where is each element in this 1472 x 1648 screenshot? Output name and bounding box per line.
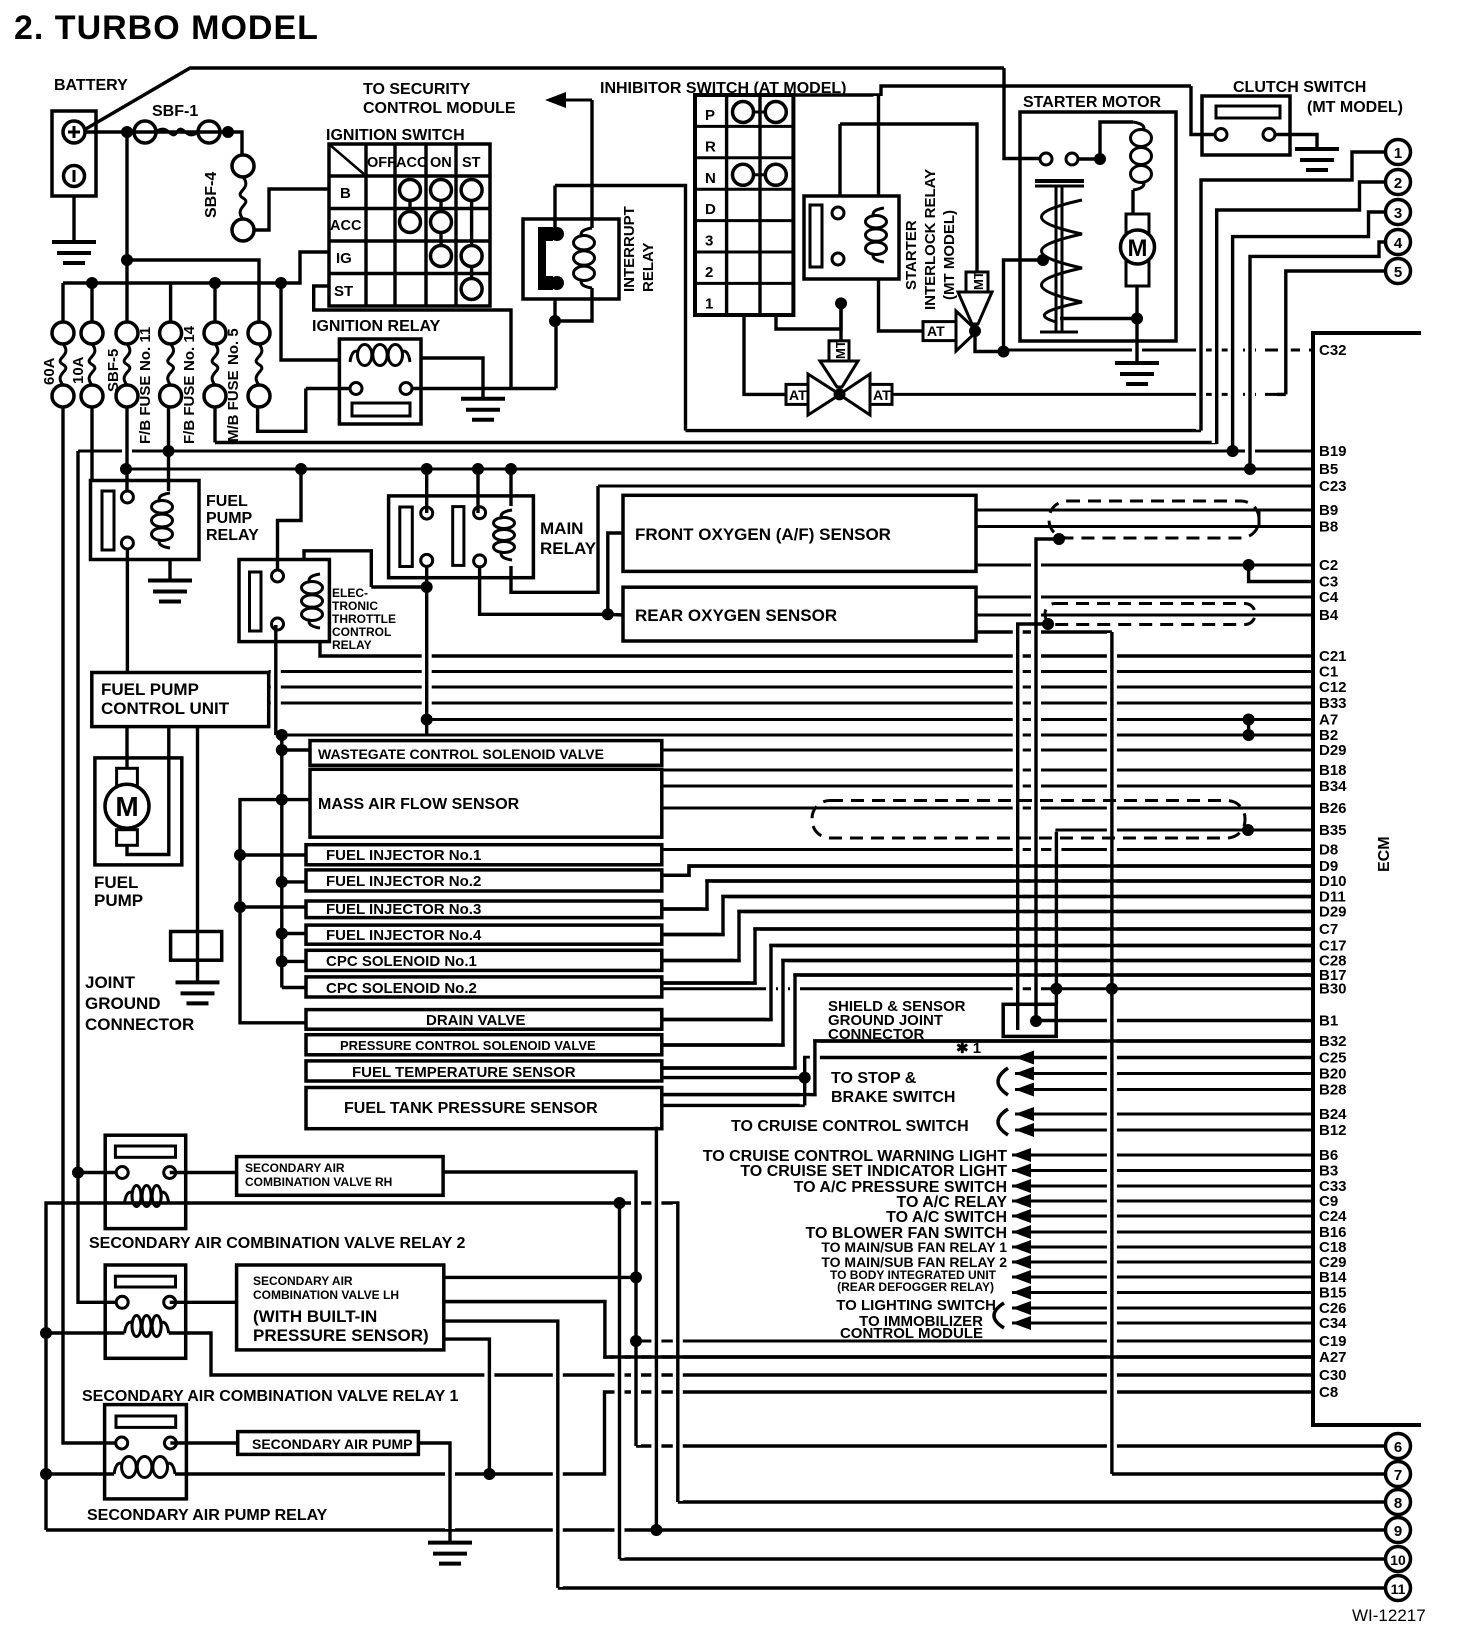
svg-text:IG: IG	[336, 250, 352, 267]
svg-text:3: 3	[1394, 205, 1402, 222]
svg-text:C30: C30	[1319, 1367, 1347, 1384]
svg-text:P: P	[705, 107, 715, 124]
wire ST row to interrupt relay and ground	[314, 286, 511, 389]
secondary air pump	[238, 1432, 419, 1455]
wire B15 line to lighting switch	[1012, 1291, 1313, 1294]
wire redraw riser D29 second	[662, 912, 1313, 961]
svg-text:MAIN: MAIN	[540, 519, 583, 538]
wire battery positive bus	[85, 132, 242, 155]
svg-text:PRESSURE SENSOR): PRESSURE SENSOR)	[253, 1326, 429, 1345]
svg-text:FUEL INJECTOR No.1: FUEL INJECTOR No.1	[326, 847, 481, 864]
wire bus A CPC2 tap	[282, 986, 306, 989]
svg-text:TO SECURITY: TO SECURITY	[363, 81, 471, 98]
svg-text:CONNECTOR: CONNECTOR	[85, 1015, 194, 1034]
wire redraw riser C28	[662, 961, 1313, 1046]
wire B19 feed down to secondary air relays	[78, 451, 117, 1302]
svg-text:B8: B8	[1319, 519, 1338, 536]
svg-text:M: M	[1128, 235, 1148, 262]
svg-text:INTERRUPT: INTERRUPT	[621, 206, 638, 292]
svg-text:ELEC-: ELEC-	[332, 586, 368, 600]
svg-text:2. TURBO MODEL: 2. TURBO MODEL	[14, 9, 319, 47]
wire main relay contact feeds	[425, 469, 428, 513]
svg-text:D29: D29	[1319, 742, 1347, 759]
svg-text:B33: B33	[1319, 695, 1347, 712]
svg-text:CPC SOLENOID No.1: CPC SOLENOID No.1	[326, 953, 477, 970]
svg-text:No. 11: No. 11	[137, 327, 154, 371]
wire C25 line	[805, 1058, 1313, 1106]
wire power bus B	[240, 800, 306, 1023]
fuse SBF-4	[232, 155, 254, 177]
wire C2 line from front oxygen sensor	[976, 564, 1313, 567]
wire power bus A	[280, 735, 283, 988]
junction dots C25 net	[799, 1072, 811, 1084]
wire M/B fuse No.5 output to ignition relay contact	[258, 389, 306, 432]
svg-text:C24: C24	[1319, 1208, 1347, 1225]
svg-text:TO CRUISE CONTROL SWITCH: TO CRUISE CONTROL SWITCH	[731, 1118, 969, 1135]
wire bus A injector2 tap	[282, 880, 306, 883]
svg-text:10A: 10A	[70, 356, 87, 384]
svg-text:B32: B32	[1319, 1033, 1347, 1050]
fuse SBF-1	[134, 121, 156, 143]
wire battery sub-bus to M/B fuse	[127, 260, 259, 322]
fuel pump control unit	[92, 673, 269, 727]
svg-text:IGNITION SWITCH: IGNITION SWITCH	[326, 127, 465, 144]
svg-text:M: M	[115, 791, 138, 822]
junction dots on fuse bus	[86, 277, 98, 289]
wire relay1 to valve LH	[170, 1301, 237, 1304]
wire ignition switch B row feed	[253, 189, 329, 230]
wire C17 line from drain valve	[662, 946, 1313, 1020]
arrow C25	[1015, 1051, 1034, 1065]
fuel injector No.4	[306, 925, 662, 944]
svg-text:ACC: ACC	[330, 218, 362, 234]
ground ignition relay coil	[461, 397, 505, 401]
svg-text:C21: C21	[1319, 648, 1347, 665]
wire interrupt relay bottom to ST net	[554, 321, 557, 389]
svg-text:B15: B15	[1319, 1285, 1347, 1302]
svg-text:CONTROL: CONTROL	[332, 625, 391, 639]
junction dots right side	[1227, 445, 1239, 457]
svg-text:WASTEGATE CONTROL SOLENOID VAL: WASTEGATE CONTROL SOLENOID VALVE	[318, 746, 604, 762]
wire clutch switch feed line	[793, 86, 1191, 95]
svg-text:STARTER: STARTER	[903, 220, 920, 290]
svg-text:C23: C23	[1319, 478, 1347, 495]
svg-text:RELAY: RELAY	[206, 527, 259, 544]
wire bus B injector3 tap	[240, 905, 306, 908]
svg-text:C19: C19	[1319, 1333, 1347, 1350]
wire node 10 line	[620, 1557, 1387, 1560]
wire B3 line to cruise set indicator light	[1012, 1169, 1313, 1172]
node 9 circle	[1386, 1518, 1411, 1543]
svg-text:B6: B6	[1319, 1147, 1338, 1164]
svg-text:2: 2	[705, 264, 713, 281]
rear oxygen sensor	[623, 587, 976, 641]
wire C23 line from main relay coil	[598, 485, 1313, 488]
wire node5 riser from AT arrow line to circled 5	[1277, 393, 1286, 396]
svg-text:B14: B14	[1319, 1269, 1347, 1286]
AT MT arrow cluster 1	[786, 384, 808, 404]
svg-text:TO A/C SWITCH: TO A/C SWITCH	[886, 1209, 1007, 1226]
wire F/B fuse No.11 output to fuel pump relay coil	[167, 407, 170, 491]
wire shield2 drain	[1018, 624, 1048, 1030]
svg-text:C4: C4	[1319, 589, 1339, 606]
node 8 circle	[1386, 1490, 1411, 1515]
svg-text:FUEL PUMP: FUEL PUMP	[101, 680, 199, 699]
svg-text:CONNECTOR: CONNECTOR	[828, 1026, 925, 1043]
ECM connector outline	[1313, 333, 1421, 1425]
interrupt relay	[523, 219, 619, 299]
wire node3 riser from B19 to circled 3	[1233, 212, 1386, 451]
svg-text:GROUND: GROUND	[85, 994, 161, 1013]
node 11 circle	[1386, 1576, 1411, 1601]
wire B35 line from B26 shield	[1055, 829, 1313, 832]
wire interrupt relay top contact line	[555, 186, 686, 431]
wire C26 line to immobilizer control module	[1012, 1307, 1313, 1310]
drain valve	[306, 1010, 662, 1030]
pressure control solenoid valve	[306, 1035, 662, 1055]
fuel pump	[95, 758, 182, 865]
svg-text:SECONDARY AIR: SECONDARY AIR	[245, 1161, 345, 1175]
svg-text:B20: B20	[1319, 1066, 1347, 1083]
wire B4 line from rear oxygen sensor	[976, 614, 1313, 617]
wire tank pressure sensor second wire	[662, 1104, 805, 1107]
svg-text:AT: AT	[873, 387, 891, 403]
svg-text:FUEL TEMPERATURE SENSOR: FUEL TEMPERATURE SENSOR	[352, 1064, 576, 1081]
svg-text:D8: D8	[1319, 842, 1338, 859]
svg-text:B18: B18	[1319, 762, 1347, 779]
svg-text:SECONDARY AIR COMBINATION VALV: SECONDARY AIR COMBINATION VALVE RELAY 1	[82, 1388, 458, 1405]
fuel injector No.1	[306, 845, 662, 865]
svg-text:C25: C25	[1319, 1050, 1347, 1067]
wire SBF-5 fuse feed from battery	[125, 132, 128, 322]
svg-text:BRAKE SWITCH: BRAKE SWITCH	[831, 1089, 955, 1106]
wire relay coils common left bus	[46, 1203, 125, 1530]
starter solenoid plunger	[1035, 179, 1084, 183]
secondary air combination valve relay 1	[105, 1265, 186, 1358]
node 5 circle	[1386, 259, 1411, 284]
node 6 circle	[1386, 1434, 1411, 1459]
arrows cruise control switch	[1015, 1107, 1034, 1121]
svg-text:C7: C7	[1319, 921, 1338, 938]
node 4 circle	[1386, 230, 1411, 255]
wire main relay bottom contact bus	[425, 566, 428, 735]
svg-text:5: 5	[1394, 264, 1402, 281]
shield B26 B35	[812, 801, 1245, 839]
wire C3 branch	[1249, 565, 1313, 582]
svg-text:A27: A27	[1319, 1349, 1347, 1366]
wire B30 line from CPC solenoid No.2	[662, 987, 1313, 990]
svg-text:FUEL: FUEL	[94, 873, 138, 892]
wire redraw riser D11	[662, 897, 1313, 935]
svg-text:4: 4	[1394, 235, 1403, 252]
wire C30 line from secondary air combination valve relay 1 coil	[169, 1333, 1313, 1375]
wire LH valve wire3 to node 11	[444, 1321, 558, 1588]
wire C8 line from secondary air pump relay coil	[175, 1392, 1313, 1474]
svg-text:B9: B9	[1319, 502, 1338, 519]
arrow AC switch	[1012, 1209, 1031, 1223]
wire node 6 line	[636, 1444, 1386, 1447]
svg-text:D29: D29	[1319, 904, 1347, 921]
svg-text:TO LIGHTING SWITCH: TO LIGHTING SWITCH	[836, 1297, 996, 1314]
svg-text:CONTROL UNIT: CONTROL UNIT	[101, 699, 230, 718]
arrow AC relay	[1012, 1194, 1031, 1208]
wire B24 line to cruise control switch	[1015, 1113, 1313, 1116]
node 1 circle	[1386, 140, 1411, 165]
fuel injector No.3	[306, 901, 662, 918]
ground starter motor	[1115, 361, 1159, 365]
svg-text:B28: B28	[1319, 1082, 1347, 1099]
svg-text:DRAIN VALVE: DRAIN VALVE	[426, 1012, 525, 1029]
svg-text:STARTER MOTOR: STARTER MOTOR	[1023, 94, 1162, 111]
wire 60A fuse feed	[61, 283, 64, 322]
svg-text:SBF-1: SBF-1	[152, 103, 198, 120]
svg-text:B1: B1	[1319, 1013, 1338, 1030]
svg-text:B26: B26	[1319, 800, 1347, 817]
svg-text:C34: C34	[1319, 1315, 1347, 1332]
wire main relay contact to oxygen sensors	[480, 566, 608, 614]
svg-text:(MT MODEL): (MT MODEL)	[1307, 99, 1403, 116]
wire oxygen sensor left feeds	[608, 533, 623, 614]
svg-text:SECONDARY AIR COMBINATION VALV: SECONDARY AIR COMBINATION VALVE RELAY 2	[89, 1235, 465, 1252]
wire SBF-5 output to fuel pump relay contact	[125, 407, 128, 491]
svg-text:B30: B30	[1319, 981, 1347, 998]
battery	[52, 111, 96, 196]
wire shield1 drain	[1036, 539, 1059, 1021]
wire B6 line to cruise control warning light	[1012, 1154, 1313, 1157]
svg-text:B: B	[340, 185, 351, 202]
wire C18 line to main/sub fan relay 1	[1012, 1246, 1313, 1249]
arrows stop brake switch	[1015, 1067, 1034, 1081]
wire rear oxygen sensor shield drain to node 7	[976, 630, 1112, 633]
svg-text:SBF-5: SBF-5	[105, 349, 122, 392]
arrow blower fan switch	[1012, 1225, 1031, 1239]
arrow lighting switch	[1012, 1286, 1031, 1300]
node 2 circle	[1386, 170, 1411, 195]
wire B32 line from tank pressure sensor	[662, 1041, 1313, 1095]
svg-text:TO CRUISE SET INDICATOR LIGHT: TO CRUISE SET INDICATOR LIGHT	[740, 1163, 1007, 1180]
wire redraw riser B32	[662, 1041, 1313, 1095]
svg-text:R: R	[705, 138, 716, 155]
wire starter motor switch feed	[1004, 68, 1040, 159]
wire starter solenoid plunger tap to C32	[1004, 260, 1044, 352]
svg-text:B35: B35	[1319, 822, 1347, 839]
svg-text:60A: 60A	[41, 357, 58, 385]
svg-text:IGNITION RELAY: IGNITION RELAY	[312, 318, 441, 335]
svg-text:REAR OXYGEN SENSOR: REAR OXYGEN SENSOR	[635, 606, 837, 625]
wire B18 line from mass air flow sensor	[662, 769, 1313, 772]
wire inhibitor switch second output	[776, 303, 841, 329]
CPC solenoid No.2	[306, 977, 662, 997]
wire A27 line from secondary air combination valve LH	[444, 1302, 1313, 1357]
svg-text:11: 11	[1391, 1581, 1406, 1597]
wire B2 line	[276, 734, 1313, 737]
wire LH valve wire1 to riser	[444, 1276, 636, 1279]
wire redraw riser B17	[662, 975, 1313, 1068]
svg-text:COMBINATION VALVE LH: COMBINATION VALVE LH	[253, 1288, 399, 1302]
wire B8 line from front oxygen sensor	[976, 525, 1313, 528]
svg-text:MT: MT	[833, 340, 848, 359]
wire redraw riser D9	[662, 866, 1313, 875]
svg-text:JOINT: JOINT	[85, 973, 136, 992]
wire C32 line from starter motor to ECM	[1004, 349, 1200, 352]
fuse 60A	[52, 322, 74, 344]
wire battery ground stem	[72, 196, 75, 242]
wire C24 line to A/C switch	[1012, 1215, 1313, 1218]
fuse SBF-5	[116, 322, 138, 344]
arrow AC pressure switch	[1012, 1179, 1031, 1193]
wire ignition relay coil to ground	[421, 358, 483, 399]
wire node 9 ground rail	[46, 1528, 1386, 1531]
wire B35 shield drain to joint connector	[1055, 832, 1058, 1005]
wire node1 riser to circled 1	[1201, 152, 1386, 431]
wire interrupt relay coil top from security module line	[590, 100, 593, 228]
wire C1 line from fuel pump control unit	[269, 670, 1313, 673]
svg-text:1: 1	[705, 295, 713, 312]
wire bus A CPC1 tap	[282, 960, 306, 963]
svg-text:✱ 1: ✱ 1	[956, 1040, 981, 1057]
svg-text:8: 8	[1394, 1495, 1402, 1512]
wire B28 line to stop and brake switch	[1015, 1088, 1313, 1091]
svg-text:B12: B12	[1319, 1122, 1347, 1139]
wire B20 line to stop and brake switch	[1015, 1072, 1313, 1075]
wire redraw riser D10	[662, 881, 1313, 909]
svg-text:TO MAIN/SUB FAN RELAY 1: TO MAIN/SUB FAN RELAY 1	[821, 1239, 1007, 1255]
svg-text:ST: ST	[334, 283, 353, 300]
front oxygen sensor	[623, 495, 976, 571]
wire node 1 line from interrupt relay contact	[686, 429, 1202, 432]
wire B1 line from shield ground joint connector	[1036, 1019, 1313, 1022]
wire B19 line	[78, 450, 1313, 453]
wire tank pressure sensor ground to node 9 rail	[655, 1127, 658, 1530]
svg-text:C2: C2	[1319, 557, 1338, 574]
svg-text:RELAY: RELAY	[332, 638, 372, 652]
svg-text:(WITH BUILT-IN: (WITH BUILT-IN	[253, 1307, 377, 1326]
arrows immobilizer	[1012, 1301, 1031, 1315]
svg-text:C8: C8	[1319, 1384, 1338, 1401]
wire MT arrow 2 loop	[838, 124, 841, 196]
wire fuel pump control unit ground lead	[196, 727, 199, 983]
wire fuse bus at y283	[63, 252, 329, 283]
svg-text:No. 14: No. 14	[181, 325, 198, 371]
svg-text:ST: ST	[462, 155, 481, 171]
wire C19 line from secondary air combination valve RH	[636, 1340, 1313, 1343]
node 10 circle	[1386, 1547, 1411, 1572]
svg-text:B4: B4	[1319, 607, 1339, 624]
fuel injector No.2	[306, 870, 662, 891]
svg-text:CLUTCH SWITCH: CLUTCH SWITCH	[1233, 79, 1366, 96]
svg-text:C12: C12	[1319, 679, 1347, 696]
svg-text:7: 7	[1394, 1467, 1402, 1484]
wire B5 line	[126, 468, 1313, 471]
wire LH valve wire4 to C8 net	[444, 1339, 490, 1474]
svg-text:TO STOP &: TO STOP &	[831, 1070, 917, 1087]
wire redraw riser C25	[803, 1058, 806, 1106]
svg-text:2: 2	[1394, 175, 1402, 192]
wire relay2 coil branch to node 10	[618, 1203, 621, 1559]
wire node 8 line	[678, 1500, 1386, 1503]
svg-text:D: D	[705, 201, 716, 218]
wire B16 line to blower fan switch	[1012, 1231, 1313, 1234]
svg-text:B5: B5	[1319, 461, 1338, 478]
fuel tank pressure sensor	[306, 1088, 662, 1129]
wire node 7 line	[1112, 1472, 1386, 1475]
svg-text:6: 6	[1394, 1439, 1402, 1456]
wire 60A fuse output to secondary air pump relay	[63, 407, 116, 1443]
svg-text:PRESSURE CONTROL SOLENOID VALV: PRESSURE CONTROL SOLENOID VALVE	[340, 1038, 596, 1053]
wire interrupt relay internal bottom join	[555, 288, 592, 321]
wire B14 line to body integrated unit	[1012, 1276, 1313, 1279]
wire inhibitor switch output to AT arrow	[744, 315, 786, 394]
svg-text:CONTROL MODULE: CONTROL MODULE	[363, 100, 516, 117]
svg-text:B34: B34	[1319, 778, 1347, 795]
wire bus A wastegate tap	[282, 748, 310, 751]
wire D29 line from CPC solenoid No.1	[662, 912, 1313, 961]
joint ground connector	[171, 932, 222, 961]
wire ignition switch circles links	[408, 190, 411, 222]
secondary air combination valve LH	[237, 1265, 444, 1350]
wire redraw relay2 coil riser to node 8	[676, 1203, 679, 1502]
svg-text:FUEL: FUEL	[206, 493, 248, 510]
svg-text:1: 1	[1394, 145, 1402, 162]
shield B9 B8	[1049, 501, 1259, 538]
wire C33 line to A/C pressure switch	[1012, 1185, 1313, 1188]
svg-text:THROTTLE: THROTTLE	[332, 612, 396, 626]
svg-text:ACC: ACC	[396, 155, 428, 171]
svg-text:INTERLOCK RELAY: INTERLOCK RELAY	[922, 169, 939, 310]
wire D29 line from wastegate control solenoid valve	[662, 749, 1313, 752]
svg-text:SECONDARY AIR PUMP RELAY: SECONDARY AIR PUMP RELAY	[87, 1507, 328, 1524]
svg-text:C1: C1	[1319, 664, 1338, 681]
svg-text:AT: AT	[927, 323, 945, 339]
svg-text:F/B FUSE: F/B FUSE	[181, 376, 198, 444]
fuse F/B No.14	[204, 322, 226, 344]
arrow main sub fan relay 2	[1012, 1255, 1031, 1269]
wire main relay coil to C23 riser	[511, 486, 598, 592]
node 3 circle	[1386, 200, 1411, 225]
svg-text:PUMP: PUMP	[94, 891, 143, 910]
svg-text:OFF: OFF	[367, 155, 396, 171]
svg-text:C3: C3	[1319, 574, 1338, 591]
svg-text:SECONDARY AIR: SECONDARY AIR	[253, 1274, 353, 1288]
wire relay2 contact tap	[78, 1171, 117, 1174]
svg-text:A7: A7	[1319, 712, 1338, 729]
secondary air combination valve relay 2	[105, 1135, 186, 1228]
wire C12 line from fuel pump control unit	[269, 686, 1313, 689]
wire C7 line from CPC solenoid No.2	[662, 929, 1313, 983]
wire C21 line from ETC relay coil	[320, 642, 1313, 656]
fuel temperature sensor	[306, 1061, 662, 1081]
svg-text:MASS AIR FLOW SENSOR: MASS AIR FLOW SENSOR	[318, 796, 520, 813]
wire B9 line from front oxygen sensor	[976, 509, 1313, 512]
wire ETC relay bottom contact to B2 bus	[274, 625, 277, 735]
svg-text:WI-12217: WI-12217	[1352, 1606, 1426, 1625]
secondary air pump relay	[105, 1405, 187, 1499]
wire clutch switch feed drop	[1191, 86, 1215, 135]
wire MT arrow tail drop	[839, 303, 842, 340]
svg-text:TRONIC: TRONIC	[332, 599, 378, 613]
svg-text:FUEL TANK PRESSURE SENSOR: FUEL TANK PRESSURE SENSOR	[344, 1100, 598, 1117]
inhibitor switch P row contacts	[733, 102, 754, 123]
svg-text:(MT MODEL): (MT MODEL)	[941, 210, 958, 300]
svg-text:9: 9	[1394, 1523, 1402, 1540]
wire F/B fuse No.14 output to node 2 line	[213, 407, 216, 443]
CPC solenoid No.1	[306, 950, 662, 970]
svg-text:B3: B3	[1319, 1163, 1338, 1180]
svg-text:F/B FUSE: F/B FUSE	[137, 376, 154, 444]
ground clutch switch	[1295, 147, 1339, 151]
ground fuel pump relay	[168, 560, 171, 581]
svg-text:C32: C32	[1319, 342, 1347, 359]
